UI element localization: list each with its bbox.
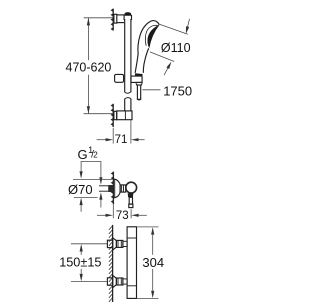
svg-text:470-620: 470-620 (66, 61, 112, 75)
svg-text:G: G (78, 147, 88, 162)
svg-text:Ø110: Ø110 (161, 41, 191, 55)
svg-text:73: 73 (116, 210, 129, 222)
svg-text:304: 304 (142, 255, 164, 270)
svg-text:2: 2 (93, 150, 98, 159)
svg-text:150±15: 150±15 (59, 255, 101, 269)
svg-text:71: 71 (115, 134, 128, 146)
svg-text:1750: 1750 (163, 84, 192, 99)
svg-text:Ø70: Ø70 (68, 182, 93, 197)
